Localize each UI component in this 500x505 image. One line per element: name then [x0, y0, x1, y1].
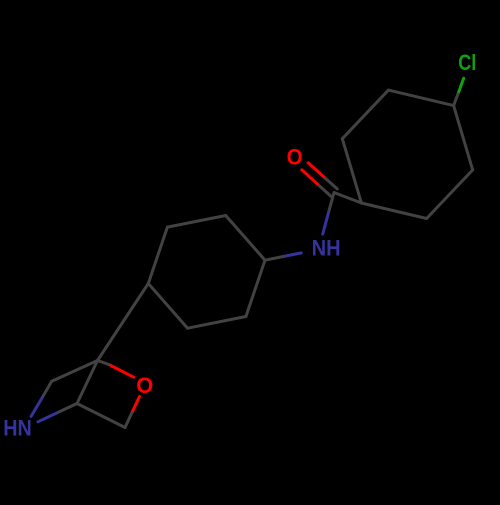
C1-Cl bond green half — [458, 78, 464, 94]
J-Cc bond — [52, 361, 98, 382]
ring1 edge 4 — [342, 139, 361, 203]
ring2 edge 1 — [246, 260, 265, 316]
Cc-N2 bond — [31, 397, 42, 416]
O2-B bond — [125, 413, 132, 427]
Cc-N2 bond — [42, 381, 51, 397]
ring1 edge 6 — [388, 90, 453, 106]
N1-ring2 bond — [265, 257, 283, 261]
ring2 edge 2 — [188, 317, 246, 329]
svg-text:Cl: Cl — [458, 50, 476, 75]
J-O2 bond red part — [109, 365, 134, 378]
N2-Cd bond — [59, 404, 77, 412]
svg-text:O: O — [136, 373, 153, 398]
C=O double bond line 2 — [317, 184, 330, 196]
O2-B bond — [132, 397, 140, 414]
C7-N1 amide bond — [329, 193, 334, 212]
ring2 edge 4 — [148, 227, 167, 283]
C=O double bond line 1 — [324, 177, 337, 189]
ring1 edge 2 — [427, 170, 473, 219]
ring2-CH2-spiro linker (two collinear bonds) — [98, 284, 149, 361]
C1-Cl bond gray half — [454, 94, 458, 106]
N2-Cd bond — [38, 412, 59, 422]
C=O double bond line 1 — [308, 163, 324, 177]
ring2 edge 5 — [167, 216, 225, 228]
ring2 edge 6 — [226, 216, 265, 261]
C7-N1 amide bond — [323, 212, 329, 234]
J-O2 bond gray part — [98, 361, 110, 365]
ring2 edge 3 — [148, 284, 187, 329]
svg-text:NH: NH — [312, 236, 341, 261]
C=O double bond line 2 — [302, 170, 318, 184]
ring1-carbonyl bond — [334, 193, 361, 204]
B-Cd bond — [77, 404, 125, 428]
Cd-J bond — [77, 361, 98, 404]
ring1 edge 1 — [454, 106, 473, 170]
svg-text:O: O — [287, 145, 303, 170]
N1-ring2 bond — [283, 253, 301, 257]
svg-text:HN: HN — [3, 415, 32, 440]
ring1 edge 5 — [342, 90, 388, 139]
ring1 edge 3 — [361, 203, 426, 219]
